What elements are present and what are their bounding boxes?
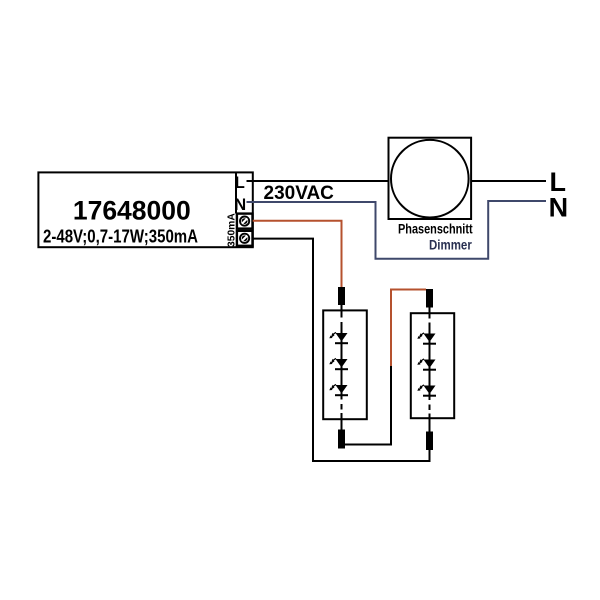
wire L: driver to dimmer xyxy=(247,180,389,182)
screw terminal + (top) xyxy=(240,217,249,226)
wire LED+ (orange): driver + terminal to LED module 1 xyxy=(253,221,342,288)
svg-text:17648000: 17648000 xyxy=(73,196,191,226)
LED module 2 string line (dashed ends) xyxy=(429,308,431,433)
dimmer box xyxy=(389,138,472,219)
LED D6 xyxy=(417,385,436,397)
LED D4 xyxy=(417,333,436,345)
LED module 2 bottom pin xyxy=(426,432,433,451)
LED D1 xyxy=(329,332,348,344)
LED D5 xyxy=(417,359,436,371)
LED module 1 box xyxy=(323,310,367,419)
svg-text:N: N xyxy=(234,196,246,214)
dimmer circle xyxy=(391,140,469,218)
svg-text:L: L xyxy=(235,174,245,192)
wire module1- to module2+ (orange segment) xyxy=(391,290,426,367)
LED D3 xyxy=(329,384,348,396)
svg-text:Dimmer: Dimmer xyxy=(429,237,472,252)
wire L: dimmer to mains L xyxy=(472,180,546,182)
wire return: module2- back to driver - terminal xyxy=(253,239,430,461)
svg-text:N: N xyxy=(549,193,569,223)
svg-text:230VAC: 230VAC xyxy=(264,183,335,204)
LED D2 xyxy=(329,358,348,370)
wire module1- to module2+ (black segment) xyxy=(344,365,391,445)
divider line between label area and terminal area xyxy=(235,172,237,213)
svg-text:2-48V;0,7-17W;350mA: 2-48V;0,7-17W;350mA xyxy=(43,227,198,247)
LED module 2 top pin xyxy=(426,289,433,308)
svg-text:Phasenschnitt: Phasenschnitt xyxy=(398,222,473,237)
screw terminal block xyxy=(237,214,253,229)
LED module 1 top pin xyxy=(338,287,345,305)
LED module 1 bottom pin xyxy=(338,430,345,449)
wire N: driver under dimmer to mains N xyxy=(247,201,547,259)
screw terminal - (bottom) xyxy=(240,234,249,243)
LED module 2 box xyxy=(411,313,454,418)
LED module 1 string line (dashed ends) xyxy=(341,305,343,431)
LED driver box U1 xyxy=(38,172,252,247)
